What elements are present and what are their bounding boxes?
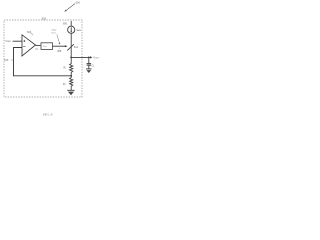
svg-text:CL: CL	[92, 64, 95, 67]
svg-text:608: 608	[57, 50, 62, 53]
svg-text:606: 606	[63, 22, 68, 25]
svg-text:602: 602	[42, 17, 47, 21]
svg-text:Gate: Gate	[52, 29, 58, 32]
svg-text:FIG. 6: FIG. 6	[42, 112, 53, 116]
svg-text:R2: R2	[63, 83, 66, 86]
svg-text:614: 614	[74, 46, 79, 49]
svg-text:VOUT: VOUT	[93, 56, 100, 60]
svg-text:600: 600	[76, 0, 81, 4]
svg-text:IBIAS: IBIAS	[76, 29, 82, 32]
svg-text:VREF: VREF	[5, 40, 11, 43]
svg-text:VX: VX	[35, 49, 39, 51]
svg-text:R1: R1	[64, 67, 67, 70]
svg-text:616: 616	[4, 59, 9, 62]
svg-text:Drvr: Drvr	[52, 31, 56, 34]
